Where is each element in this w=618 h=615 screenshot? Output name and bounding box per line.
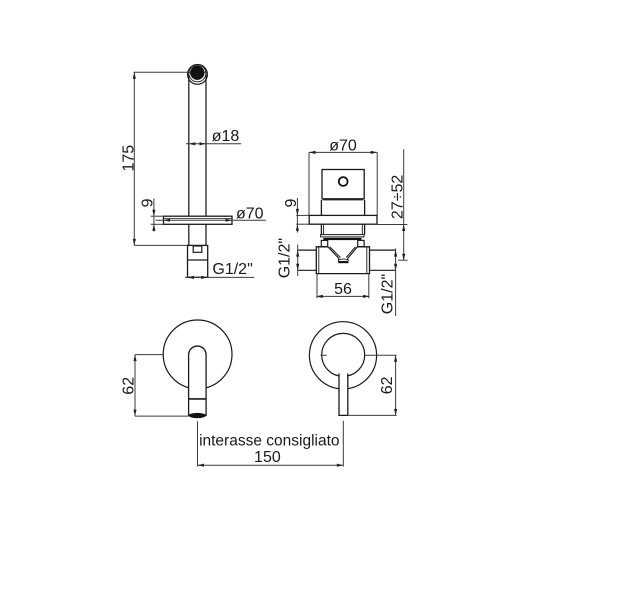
spout front tube — [189, 346, 207, 415]
left port bottom — [298, 269, 317, 271]
spout end dark opening — [190, 66, 204, 80]
svg-text:62: 62 — [379, 376, 396, 394]
dim 62 right: arrow down — [394, 409, 397, 416]
svg-text:G1/2": G1/2" — [379, 274, 396, 314]
svg-text:27÷52: 27÷52 — [389, 175, 406, 219]
dim 56: right extension — [368, 274, 370, 299]
svg-text:G1/2": G1/2" — [212, 261, 252, 278]
svg-text:56: 56 — [334, 281, 352, 298]
wire: dim175 top extension line — [134, 71, 208, 73]
valve body inner right line — [366, 246, 368, 273]
funnel right outer slant — [348, 247, 358, 259]
svg-text:9: 9 — [283, 198, 300, 207]
dim 62 right: arrow up — [394, 355, 397, 362]
left port dim line — [297, 245, 299, 277]
dim G1/2 left drawing: line — [185, 276, 254, 278]
dim 27-52: top tick — [377, 224, 407, 226]
funnel cup dark bottom — [338, 261, 348, 263]
dim 62 left: bottom extension — [135, 415, 189, 417]
right port bottom — [370, 269, 396, 271]
dim 9 left: arrow up — [152, 224, 155, 231]
valve rosette outer circle — [309, 322, 376, 389]
dim 150: line — [198, 464, 344, 466]
dim 9 left: bottom tick — [151, 223, 164, 225]
outlet dark ellipse — [189, 413, 206, 418]
dim 9 left: arrow down — [152, 210, 155, 217]
dim 150: left extension — [197, 421, 199, 466]
right port dim line — [395, 249, 397, 317]
spout tube body — [189, 74, 206, 245]
dim ø18 arrow left — [189, 142, 196, 145]
wire: ø70 right extension line — [376, 152, 378, 215]
valve body inner left line — [318, 246, 320, 273]
funnel left inner slant — [330, 247, 341, 258]
spout end mid ring — [189, 65, 206, 82]
dim 62 right: bottom extension — [348, 414, 397, 416]
center tick — [321, 354, 327, 356]
dim ø70 top: arrow left — [309, 151, 316, 154]
cartridge right lug — [358, 240, 364, 246]
dim ø70 line — [156, 219, 266, 221]
dim ø70 arrow left — [164, 219, 171, 222]
valve inner circle — [322, 333, 365, 376]
dim G1/2 left drawing: arrow right — [201, 276, 208, 279]
dim 9 right: top tick — [296, 214, 309, 216]
spout end outer circle — [188, 65, 208, 85]
right port top — [370, 249, 396, 251]
dim ø18 line — [186, 143, 241, 145]
dim 56: line — [316, 295, 369, 297]
dim 56: arrow right — [363, 295, 370, 298]
flange inner face line — [164, 217, 233, 219]
aerator line — [189, 398, 207, 400]
cartridge collar strip — [321, 235, 364, 237]
funnel left outer slant — [328, 247, 339, 259]
cartridge left lug — [321, 240, 327, 246]
handle underline — [323, 199, 363, 201]
dim 62 left: arrow down — [133, 410, 136, 417]
flange plate (ø70) — [164, 216, 233, 224]
dim 62 left: vertical line — [134, 355, 136, 417]
funnel right inner slant — [346, 247, 355, 258]
dim ø18 arrow right — [200, 142, 207, 145]
svg-text:175: 175 — [120, 145, 137, 172]
funnel cup inner arc — [339, 258, 347, 261]
wire: ø70 left extension line — [308, 152, 310, 215]
svg-text:9: 9 — [139, 198, 156, 207]
dim 56: left extension — [316, 274, 318, 299]
svg-text:ø70: ø70 — [329, 137, 357, 154]
dim 9 right: arrow up — [296, 224, 299, 231]
svg-text:ø70: ø70 — [236, 205, 264, 222]
dim 9 right: arrow down — [296, 209, 299, 216]
handle skirt left edge — [320, 200, 322, 216]
left port arrow up — [296, 250, 299, 257]
handle front box — [322, 170, 364, 199]
neck below flange inner right — [361, 224, 363, 234]
dim 150: arrow right — [337, 464, 344, 467]
dim 9 left: top tick — [151, 215, 164, 217]
neck below flange outer left — [320, 224, 322, 234]
dim 27-52: arrow up — [402, 225, 405, 232]
dim 9 right: bottom tick — [296, 223, 309, 225]
svg-text:G1/2": G1/2" — [277, 238, 294, 278]
svg-text:ø18: ø18 — [212, 128, 240, 145]
dim 150: arrow left — [198, 464, 205, 467]
svg-text:62: 62 — [120, 377, 137, 395]
left port arrow down — [296, 264, 299, 271]
dim 62 left: arrow up — [133, 355, 136, 362]
handle skirt right edge — [364, 200, 366, 216]
wire: wall plane extension line — [134, 244, 189, 246]
left port top — [298, 249, 317, 251]
cartridge base dark bar — [323, 238, 361, 240]
fitting notch — [193, 246, 202, 252]
right port arrow up — [394, 250, 397, 257]
handle rod — [339, 374, 348, 416]
dim 56: arrow left — [316, 295, 323, 298]
dim 27-52: arrow down — [402, 254, 405, 261]
dim 27-52: bottom tick — [398, 259, 407, 261]
handle screw circle — [339, 177, 348, 186]
dim ø70 top: arrow right — [371, 151, 378, 154]
fitting mid line — [188, 259, 208, 261]
neck below flange outer right — [364, 224, 366, 234]
dim 9 left: vertical line — [153, 199, 155, 232]
dim 175 arrow up — [133, 72, 136, 79]
funnel cup left edge — [337, 258, 340, 261]
dim ø70 top: line — [309, 151, 377, 153]
right port arrow down — [394, 264, 397, 271]
dim G1/2 left drawing: arrow left — [188, 276, 195, 279]
dim 150: right extension — [342, 421, 344, 467]
wall fitting outline — [188, 245, 208, 277]
dim 175 arrow down — [133, 239, 136, 246]
dim 62 right: top extension — [365, 354, 397, 356]
svg-text:150: 150 — [254, 449, 281, 466]
valve body outline — [316, 247, 369, 274]
neck below flange inner left — [323, 224, 325, 234]
dim ø70 arrow right — [226, 219, 233, 222]
funnel cup right edge — [347, 258, 350, 261]
valve flange plate — [309, 215, 377, 224]
svg-text:interasse consigliato: interasse consigliato — [199, 432, 339, 449]
dim 175 vertical line — [133, 72, 135, 245]
spout rosette circle — [163, 320, 232, 389]
dim 27-52: vertical line — [403, 149, 405, 260]
dim 62 left: top extension — [135, 354, 163, 356]
dim 62 right: vertical line — [395, 355, 397, 415]
dim 9 right: vertical line — [296, 198, 298, 233]
